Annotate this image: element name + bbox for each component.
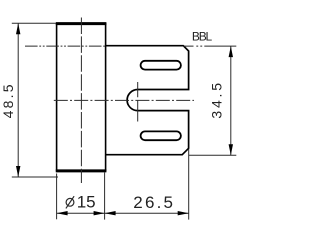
dimension line 48.5 [17,23,19,177]
svg-text:15: 15 [77,193,96,212]
slot hole upper [141,61,181,70]
svg-text:34.5: 34.5 [208,80,224,118]
arrow up 48.5 [16,23,20,34]
extension line bottom right [189,154,236,156]
barrel top edge [56,22,107,25]
arrow left dia15 [57,211,68,215]
arrow down 34.5 [229,144,233,155]
extension line top left [12,22,56,24]
barrel left edge [56,23,58,172]
plate outline with chamfers and knuckle notch [106,46,189,155]
bottom dimension line [57,212,189,214]
svg-text:48.5: 48.5 [0,82,16,118]
slot hole lower [141,131,181,140]
svg-text:BBL: BBL [192,30,213,44]
barrel bottom edge [56,169,107,172]
arrow right dia15 [94,211,105,215]
svg-text:26.5: 26.5 [133,193,175,212]
BBL reference line left segment [25,45,106,47]
barrel right edge [105,23,107,172]
extension line bottom left [12,176,58,178]
BBL reference line right segment [183,45,236,47]
diameter symbol [66,198,74,206]
arrow down 48.5 [16,166,20,177]
vertical centerline of barrel [80,18,82,184]
vertical centerline of notch [137,82,139,122]
extension line below barrel left [56,174,58,220]
horizontal centerline [54,99,194,101]
arrow left 26.5 [105,211,116,215]
arrow right 26.5 [178,211,189,215]
extension line below plate right [188,149,190,220]
extension line below barrel right [104,173,106,220]
dimension line 34.5 [230,46,232,155]
arrow up 34.5 [229,46,233,57]
